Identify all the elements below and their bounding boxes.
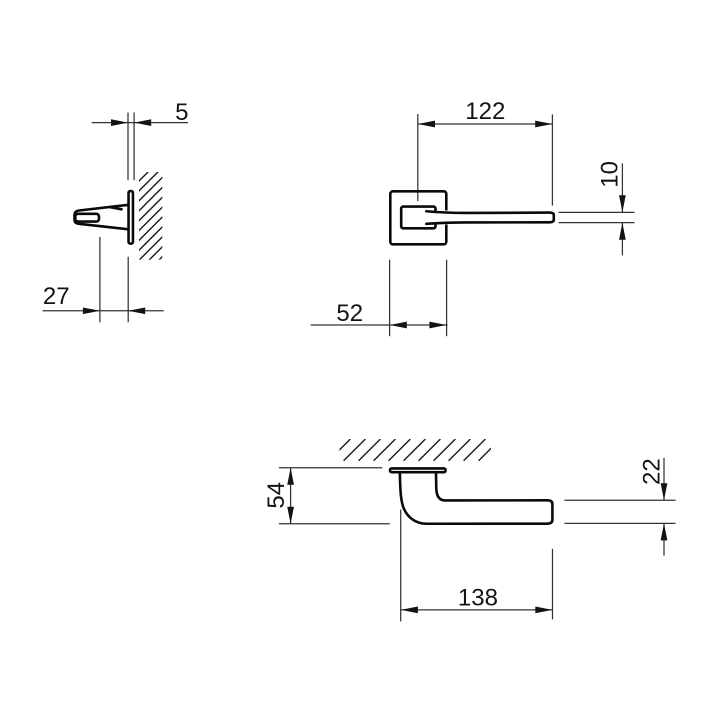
white gap over hub right edge bbox=[430, 212, 440, 224]
svg-text:52: 52 bbox=[336, 300, 363, 327]
dimension line 10 lower segment bbox=[621, 223, 623, 256]
extension line rose front face (dim 5) bbox=[127, 113, 129, 181]
arrow left end dim 52 bbox=[390, 322, 407, 329]
svg-text:10: 10 bbox=[597, 161, 624, 188]
extension line lever top (dim 22) bbox=[564, 499, 675, 501]
extension line rose front (dim 27) bbox=[127, 257, 129, 323]
dimension line 22 lower segment bbox=[663, 523, 665, 555]
arrow right of dim 27 bbox=[128, 307, 145, 314]
dimension line 122 bbox=[418, 123, 553, 125]
arrow bottom of dim 22 bbox=[661, 523, 668, 540]
arrow right of dim 5 bbox=[134, 119, 151, 126]
dimension line 52 bbox=[311, 324, 448, 326]
extension line handle bottom (dim 54) bbox=[279, 523, 390, 525]
dimension line 27 bbox=[43, 310, 164, 312]
arrow bottom of dim 10 bbox=[619, 223, 626, 240]
extension line rose left (dim 52) bbox=[389, 260, 391, 337]
svg-text:54: 54 bbox=[263, 482, 290, 509]
rose plate side view bbox=[129, 191, 133, 244]
arrow left end dim 122 bbox=[418, 121, 435, 128]
arrow right end dim 52 bbox=[429, 322, 446, 329]
grip back edge tick bbox=[111, 207, 122, 209]
dimension line 138 bbox=[401, 609, 553, 611]
hub square front view bbox=[401, 207, 435, 229]
arrow right end dim 138 bbox=[535, 607, 552, 614]
extension line hub axis (dim 122) bbox=[417, 114, 419, 201]
rose flange side view bbox=[390, 468, 446, 472]
arrow left of dim 5 bbox=[111, 119, 128, 126]
door hatching (bottom view) bbox=[329, 439, 501, 461]
arrow top of dim 22 bbox=[661, 483, 668, 500]
grip end face bbox=[75, 214, 99, 222]
square rose front view bbox=[390, 191, 446, 244]
extension line rose back face (dim 5) bbox=[133, 113, 135, 181]
arrow left end dim 138 bbox=[401, 607, 418, 614]
svg-text:27: 27 bbox=[43, 283, 70, 310]
white gap over rose right edge bbox=[443, 211, 451, 225]
extension line rose right (dim 52) bbox=[446, 260, 448, 337]
arrow top of dim 10 bbox=[619, 195, 626, 212]
extension line neck left (dim 138) bbox=[400, 510, 402, 622]
svg-text:122: 122 bbox=[465, 98, 505, 125]
dimension line 5 bbox=[92, 122, 188, 124]
dimension line 10 upper segment bbox=[621, 163, 623, 212]
svg-text:22: 22 bbox=[639, 458, 666, 485]
handle profile (side view) bbox=[400, 474, 553, 524]
dimension line 54 bbox=[290, 468, 292, 524]
extension line lever bottom (dim 10) bbox=[559, 222, 635, 224]
extension line grip face (dim 27) bbox=[99, 237, 101, 322]
extension line lever end (dim 138) bbox=[552, 549, 554, 620]
extension line lever end (dim 122) bbox=[551, 114, 553, 205]
dimension line 22 upper segment bbox=[663, 458, 665, 500]
arrow top of dim 54 bbox=[287, 468, 294, 485]
arrow left of dim 27 bbox=[83, 307, 100, 314]
arrow bottom of dim 54 bbox=[287, 507, 294, 524]
extension line flange top (dim 54) bbox=[279, 467, 382, 469]
extension line lever top (dim 10) bbox=[559, 211, 635, 213]
extension line lever bottom (dim 22) bbox=[564, 522, 675, 524]
arrow right end dim 122 bbox=[535, 121, 552, 128]
svg-text:5: 5 bbox=[175, 99, 188, 126]
handle neck silhouette (end view) bbox=[75, 205, 128, 229]
svg-text:138: 138 bbox=[458, 584, 498, 611]
lever bar front view bbox=[426, 211, 554, 224]
wall hatching (side view, top-left) bbox=[136, 154, 166, 293]
